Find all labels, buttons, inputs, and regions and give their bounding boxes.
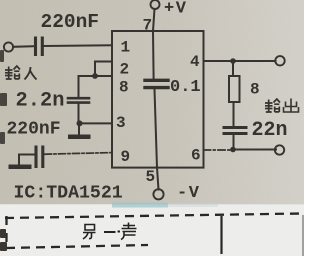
paper texture noise [0,0,1,1]
ground G1 [68,135,91,140]
divider vertical line [220,216,222,254]
resistor R1 8ohm [229,76,240,102]
dashed left edge [5,216,7,242]
wire C2 to pin 3 [79,105,113,124]
wire C3 to pin 9 [45,153,113,155]
node junction pin3 [77,120,83,126]
label yi (一) [104,231,120,234]
wire +V to pin 7 [153,9,155,31]
capacitor C1 220nF plates [36,38,43,55]
output terminal bottom [275,145,284,154]
cyan highlight streak [112,203,168,208]
wire C4 to pin 5 and -V [155,90,159,190]
-V terminal [153,189,163,199]
Chinese glyphs drawn as strokes [5,66,299,240]
bottom light band [0,204,304,256]
label sheng (声) [121,223,137,240]
wire R1 to C5 [233,102,235,126]
wire ground to C3 [19,155,34,165]
wire node to R1 [232,61,234,76]
wire pin 4 to output [204,60,276,62]
label shu-chu (output) char 出 [284,99,299,113]
scan artifact smudges left edge [0,50,7,251]
right edge frame line [302,215,304,256]
capacitor C2 2.2n plates [68,98,89,102]
label ling (另) [83,225,96,240]
capacitor C4 0.1 plates [145,80,168,87]
label shu-chu (output) char 输 [265,99,280,112]
ground G2 [9,165,32,170]
dashed box: second channel [5,214,303,256]
wire pin 6 to output bottom [204,149,232,151]
wire pin7 rail to C4 [152,31,155,79]
wire input to pin 1 [13,45,112,47]
node junction pin6 [230,147,236,153]
paper background [0,0,304,208]
node junction pin4 [230,58,236,64]
label shu-ru (input) char 入 [25,67,37,80]
wire pin 8 to C2 [79,76,113,97]
IC U1 TDA1521 box [112,31,204,168]
node junction pins 2-8 [92,73,98,79]
dashed bottom line [6,245,148,248]
output terminal top [275,56,284,65]
capacitor C5 22n plates [224,128,246,134]
wire pin 2 jumper [95,62,112,77]
input terminal [4,42,13,51]
label shu-ru (input) char 输 [5,66,20,79]
+V terminal [151,0,160,9]
wire node to ground [78,124,80,135]
dashed top line [5,214,302,219]
wire C5 to node [233,135,235,149]
capacitor C3 220nF plates [36,147,43,167]
